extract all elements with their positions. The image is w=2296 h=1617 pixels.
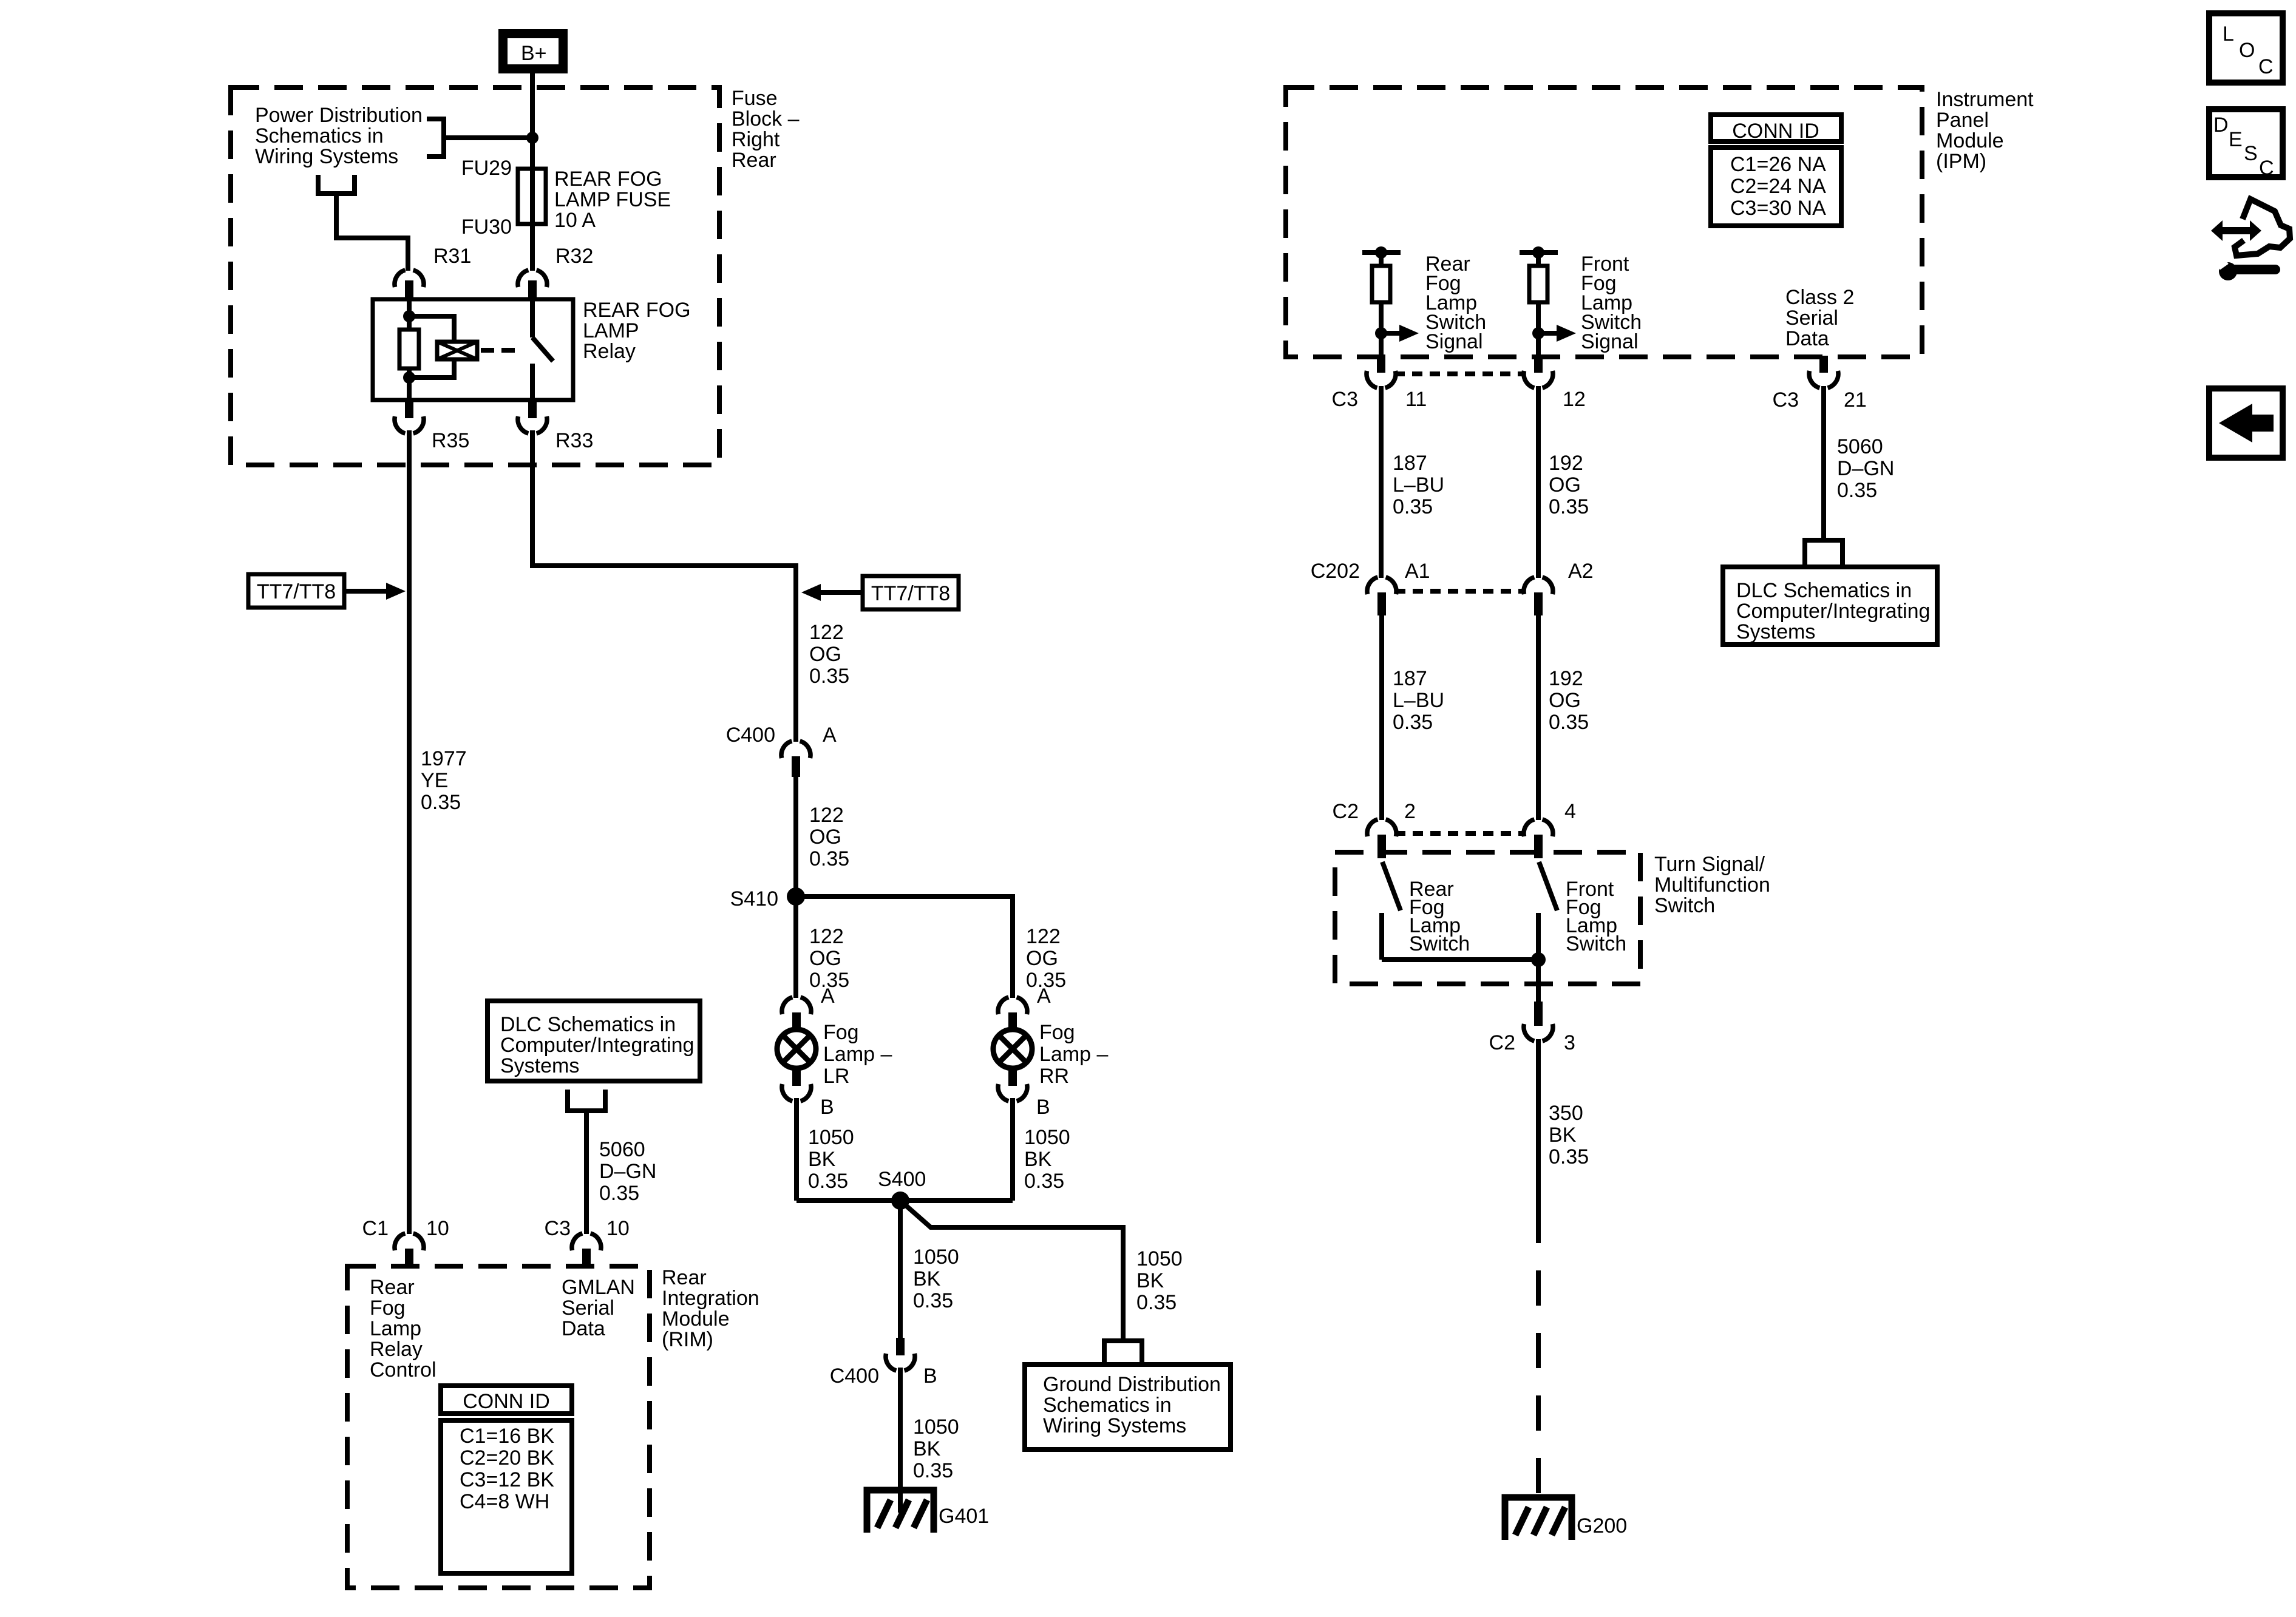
label Rear Integration Module RIM: [662, 1266, 759, 1351]
svg-text:11: 11: [1405, 388, 1427, 411]
svg-text:CONN ID: CONN ID: [1732, 120, 1819, 143]
relay coil loop wires: [409, 316, 454, 378]
svg-text:Computer/Integrating: Computer/Integrating: [500, 1034, 694, 1057]
svg-text:Switch: Switch: [1566, 932, 1626, 955]
front fog lamp switch blade: [1539, 862, 1557, 910]
svg-text:Control: Control: [370, 1358, 436, 1381]
svg-text:0.35: 0.35: [599, 1182, 639, 1205]
wire C2-3 down (350 BK): [1536, 1039, 1541, 1208]
splice S400: [891, 1192, 909, 1210]
label C1 at RIM: [362, 1217, 389, 1240]
svg-text:BK: BK: [1549, 1124, 1577, 1147]
svg-text:B: B: [1036, 1096, 1050, 1119]
label REAR FOG LAMP FUSE 10 A: [554, 168, 671, 232]
wire bracket to R31: [336, 194, 408, 271]
svg-text:A1: A1: [1405, 560, 1430, 583]
svg-text:YE: YE: [421, 769, 448, 792]
dashed connector line C3: [1394, 371, 1525, 376]
svg-text:C3: C3: [1332, 388, 1358, 411]
wire RR-B to S400: [1010, 1098, 1015, 1201]
svg-text:BK: BK: [1024, 1148, 1052, 1171]
svg-text:192: 192: [1549, 667, 1583, 690]
svg-text:REAR FOG: REAR FOG: [554, 168, 662, 191]
connector R31: [395, 270, 424, 299]
label B at LR lamp: [820, 1096, 834, 1119]
svg-text:TT7/TT8: TT7/TT8: [871, 582, 950, 605]
icon connector wrench: [2211, 199, 2290, 280]
label 10 at C1: [426, 1217, 449, 1240]
icon LOC: [2209, 13, 2283, 83]
label C3 at 21: [1773, 388, 1799, 412]
label Instrument Panel Module IPM: [1936, 88, 2034, 173]
svg-text:1050: 1050: [913, 1415, 959, 1439]
label R32: [555, 245, 593, 268]
label 1050 BK 0.35 RR: [1024, 1126, 1070, 1193]
svg-text:Serial: Serial: [1785, 307, 1838, 330]
svg-text:122: 122: [809, 804, 844, 827]
svg-text:(RIM): (RIM): [662, 1328, 713, 1351]
connector C202-A2: [1524, 577, 1553, 615]
IPM dashed box: [1286, 87, 1922, 357]
svg-text:Power Distribution: Power Distribution: [255, 104, 423, 127]
relay switch common wire: [530, 299, 535, 337]
svg-text:Multifunction: Multifunction: [1654, 873, 1770, 897]
svg-text:C1: C1: [362, 1217, 389, 1240]
svg-text:C2: C2: [1489, 1031, 1515, 1054]
svg-text:E: E: [2229, 128, 2243, 151]
junction node on B+ feed: [526, 132, 538, 144]
label S400: [878, 1168, 926, 1191]
svg-text:350: 350: [1549, 1102, 1583, 1125]
fog lamp RR: [993, 1029, 1032, 1068]
off-page bracket Power Distribution: [427, 119, 444, 157]
ground G200: [1505, 1497, 1572, 1540]
svg-text:A: A: [821, 985, 835, 1008]
svg-text:Wiring Systems: Wiring Systems: [255, 145, 398, 168]
svg-text:Class 2: Class 2: [1785, 286, 1854, 309]
label 1977 YE 0.35: [421, 747, 467, 814]
svg-text:BK: BK: [913, 1437, 941, 1460]
connector C2-4: [1524, 819, 1553, 858]
relay switch blade: [532, 337, 553, 361]
label 1050 BK 0.35 LR: [808, 1126, 854, 1193]
box Ground Distribution Schematics: [1025, 1364, 1231, 1449]
svg-text:C1=26 NA: C1=26 NA: [1730, 153, 1826, 176]
svg-text:Switch: Switch: [1409, 932, 1470, 955]
svg-text:TT7/TT8: TT7/TT8: [257, 580, 336, 603]
connector C400-B: [886, 1338, 915, 1371]
label 5060 D-GN 0.35 left: [599, 1138, 656, 1205]
box DLC Schematics right: [1723, 567, 1937, 645]
icon back arrow: [2209, 388, 2283, 458]
svg-text:G200: G200: [1577, 1514, 1627, 1537]
svg-text:0.35: 0.35: [913, 1289, 953, 1312]
svg-text:3: 3: [1564, 1031, 1575, 1054]
svg-text:B: B: [923, 1364, 937, 1388]
relay resistor: [399, 330, 419, 368]
svg-text:L: L: [2223, 22, 2234, 46]
switch output wire: [1382, 960, 1538, 1002]
svg-text:OG: OG: [809, 825, 841, 849]
box DLC Schematics left: [487, 1001, 700, 1081]
dashed wire to G200: [1536, 1208, 1541, 1519]
svg-text:Turn Signal/: Turn Signal/: [1654, 853, 1765, 876]
svg-text:OG: OG: [1026, 947, 1058, 970]
svg-text:Lamp: Lamp: [370, 1317, 421, 1340]
splice S410: [787, 887, 805, 906]
off-page bracket DLC right: [1805, 540, 1843, 567]
label A1: [1405, 560, 1430, 583]
svg-text:1977: 1977: [421, 747, 467, 770]
label C400 at A: [726, 724, 775, 747]
svg-text:Fog: Fog: [1039, 1021, 1075, 1044]
svg-text:Data: Data: [562, 1317, 605, 1340]
svg-text:Module: Module: [1936, 129, 2004, 152]
label 11: [1405, 388, 1427, 411]
wire C400-A to S410: [793, 777, 798, 897]
front fog switch signal circuit: [1520, 246, 1576, 356]
relay coil element: [437, 342, 477, 359]
svg-text:Systems: Systems: [500, 1054, 579, 1077]
svg-text:OG: OG: [809, 947, 841, 970]
connector R32: [518, 270, 547, 299]
label Rear Fog Lamp Relay Control: [370, 1276, 436, 1381]
label C202: [1311, 560, 1360, 583]
svg-text:C400: C400: [830, 1364, 879, 1388]
svg-text:R31: R31: [433, 245, 471, 268]
svg-text:C202: C202: [1311, 560, 1360, 583]
svg-text:122: 122: [1026, 925, 1061, 948]
svg-text:10: 10: [606, 1217, 630, 1240]
wire C400-B to G401: [898, 1368, 903, 1513]
wire S400 to C400-B: [898, 1201, 903, 1338]
svg-text:C2=24 NA: C2=24 NA: [1730, 175, 1826, 198]
svg-text:C2: C2: [1333, 800, 1359, 823]
label GMLAN Serial Data: [562, 1276, 635, 1340]
svg-text:CONN ID: CONN ID: [463, 1390, 550, 1413]
svg-text:FU30: FU30: [461, 215, 512, 239]
relay coil wire left: [407, 299, 412, 400]
connector C400-A: [781, 741, 810, 777]
svg-text:L–BU: L–BU: [1393, 689, 1444, 712]
svg-text:Signal: Signal: [1581, 330, 1639, 353]
svg-text:Rear: Rear: [732, 149, 776, 172]
svg-text:S410: S410: [730, 887, 778, 910]
svg-text:BK: BK: [808, 1148, 836, 1171]
label Rear Fog Lamp Switch: [1409, 878, 1470, 955]
off-page bracket ground distribution: [1104, 1341, 1142, 1362]
label 122 OG 0.35 below C400: [809, 804, 849, 870]
svg-text:0.35: 0.35: [808, 1170, 848, 1193]
svg-text:0.35: 0.35: [1393, 711, 1433, 734]
svg-text:B: B: [820, 1096, 834, 1119]
connector R35: [395, 400, 424, 433]
fog lamp LR: [777, 1029, 816, 1068]
dashed connector line C2: [1395, 831, 1525, 836]
label FU30: [461, 215, 512, 239]
icon DESC: [2209, 109, 2283, 180]
off-page bracket DLC left: [568, 1090, 605, 1111]
label B at RR lamp: [1036, 1096, 1050, 1119]
svg-text:0.35: 0.35: [1136, 1291, 1177, 1314]
label 187 L-BU 0.35 upper: [1393, 452, 1444, 518]
svg-text:4: 4: [1564, 800, 1576, 823]
svg-text:LAMP FUSE: LAMP FUSE: [554, 188, 671, 211]
label 187 L-BU 0.35 lower: [1393, 667, 1444, 734]
svg-text:0.35: 0.35: [1549, 711, 1589, 734]
svg-text:21: 21: [1844, 388, 1867, 412]
svg-text:Lamp –: Lamp –: [1039, 1043, 1108, 1066]
svg-text:C4=8 WH: C4=8 WH: [460, 1490, 549, 1513]
wire ground bus LR-RR: [796, 1198, 1013, 1203]
label FU29: [461, 157, 512, 180]
svg-text:R33: R33: [555, 429, 593, 452]
svg-text:GMLAN: GMLAN: [562, 1276, 635, 1299]
svg-text:187: 187: [1393, 452, 1427, 475]
label 1050 BK 0.35 above G401: [913, 1415, 959, 1482]
label A2: [1568, 560, 1594, 583]
svg-text:0.35: 0.35: [913, 1459, 953, 1482]
label R35: [432, 429, 469, 452]
svg-text:Integration: Integration: [662, 1287, 759, 1310]
svg-text:(IPM): (IPM): [1936, 150, 1986, 173]
svg-text:C3=12 BK: C3=12 BK: [460, 1468, 554, 1491]
wire C3-11 to C202-A1 (187 L-BU): [1379, 386, 1384, 578]
svg-text:0.35: 0.35: [809, 665, 849, 688]
svg-text:C: C: [2258, 55, 2274, 78]
wire R35 to C1-10 (1977 YE): [407, 430, 412, 1234]
label R31: [433, 245, 471, 268]
connector C2-3: [1524, 1002, 1553, 1041]
ground G401: [867, 1490, 934, 1533]
rear fog switch signal circuit: [1362, 246, 1419, 356]
svg-text:L–BU: L–BU: [1393, 473, 1444, 497]
label A at C400: [823, 724, 837, 747]
label C3 at RIM: [545, 1217, 571, 1240]
svg-text:A2: A2: [1568, 560, 1594, 583]
label A at LR lamp: [821, 985, 835, 1008]
label 2: [1404, 800, 1416, 823]
wire fuse to R32: [530, 224, 535, 271]
svg-text:S: S: [2244, 142, 2258, 165]
svg-text:A: A: [823, 724, 837, 747]
svg-text:Data: Data: [1785, 327, 1829, 350]
turn signal multifunction switch dashed box: [1335, 852, 1640, 984]
arrow TT7/TT8 left to wire: [344, 583, 406, 600]
label Front Fog Lamp Switch Signal: [1581, 253, 1642, 353]
svg-text:Serial: Serial: [562, 1297, 614, 1320]
label Rear Fog Lamp Switch Signal: [1425, 253, 1486, 353]
label C400 at B: [830, 1364, 879, 1388]
label 192 OG 0.35 lower: [1549, 667, 1589, 734]
svg-text:Rear: Rear: [662, 1266, 707, 1289]
svg-text:Fuse: Fuse: [732, 87, 778, 110]
connector R33: [518, 400, 547, 433]
RIM CONN ID table: [441, 1386, 572, 1573]
svg-text:0.35: 0.35: [1549, 495, 1589, 518]
label Front Fog Lamp Switch: [1566, 878, 1626, 955]
svg-text:D: D: [2213, 114, 2229, 137]
svg-text:DLC Schematics in: DLC Schematics in: [1736, 579, 1912, 602]
label Fog Lamp - LR: [823, 1021, 892, 1088]
svg-text:REAR FOG: REAR FOG: [583, 299, 691, 322]
svg-text:1050: 1050: [913, 1246, 959, 1269]
label Fuse Block - Right Rear: [732, 87, 800, 172]
svg-text:B+: B+: [521, 42, 547, 65]
svg-text:C1=16 BK: C1=16 BK: [460, 1425, 554, 1448]
svg-text:0.35: 0.35: [1837, 479, 1877, 502]
RIM dashed box: [347, 1266, 650, 1588]
rear fog lamp switch contact: [1379, 913, 1384, 960]
wire C3-21 to DLC (5060 D-GN): [1821, 386, 1826, 540]
svg-text:10 A: 10 A: [554, 209, 596, 232]
junction dot switch outputs: [1531, 952, 1546, 967]
label REAR FOG LAMP Relay: [583, 299, 691, 363]
svg-text:C400: C400: [726, 724, 775, 747]
relay actuator dashed link: [481, 348, 521, 353]
label 1050 BK 0.35 right branch: [1136, 1247, 1183, 1314]
svg-text:BK: BK: [1136, 1269, 1164, 1292]
svg-text:Relay: Relay: [583, 340, 636, 363]
connector C202-A1: [1367, 577, 1396, 615]
svg-text:1050: 1050: [1024, 1126, 1070, 1149]
svg-text:D–GN: D–GN: [599, 1160, 656, 1183]
label Fog Lamp - RR: [1039, 1021, 1108, 1088]
svg-text:Rear: Rear: [370, 1276, 415, 1299]
svg-text:Signal: Signal: [1425, 330, 1483, 353]
svg-text:0.35: 0.35: [809, 847, 849, 870]
svg-text:Ground Distribution: Ground Distribution: [1043, 1373, 1221, 1396]
svg-text:1050: 1050: [1136, 1247, 1183, 1270]
off-page box TT7/TT8 right: [863, 576, 959, 609]
wire R33 to C400-A (122 OG): [532, 430, 796, 742]
junction dot coil top: [403, 310, 415, 322]
svg-text:O: O: [2239, 39, 2255, 62]
label C2: [1333, 800, 1359, 823]
label 350 BK 0.35: [1549, 1102, 1589, 1168]
svg-text:R32: R32: [555, 245, 593, 268]
svg-text:Schematics in: Schematics in: [255, 124, 384, 147]
IPM CONN ID table: [1711, 115, 1841, 226]
svg-text:0.35: 0.35: [1024, 1170, 1064, 1193]
svg-text:0.35: 0.35: [421, 791, 461, 814]
label Class 2 Serial Data: [1785, 286, 1854, 350]
svg-text:C3=30 NA: C3=30 NA: [1730, 197, 1826, 220]
wire LR-B to S400: [794, 1098, 799, 1201]
wire B+ to fuse FU29: [530, 73, 535, 271]
label B at C400: [923, 1364, 937, 1388]
svg-text:10: 10: [426, 1217, 449, 1240]
svg-text:C3: C3: [545, 1217, 571, 1240]
label 21: [1844, 388, 1867, 412]
svg-text:122: 122: [809, 925, 844, 948]
label S410: [730, 887, 778, 910]
label C3 at 11: [1332, 388, 1358, 411]
connector A fog lamp RR: [998, 997, 1027, 1030]
arrow TT7/TT8 right to wire: [801, 584, 863, 601]
rear fog lamp switch blade: [1382, 862, 1401, 910]
label 122 OG 0.35 above C400: [809, 621, 849, 688]
label Power Distribution Schematics in Wiring Systems: [255, 104, 423, 168]
svg-text:Schematics in: Schematics in: [1043, 1394, 1172, 1417]
svg-text:C3: C3: [1773, 388, 1799, 412]
wire DLC to C3-10 (5060 D-GN): [584, 1111, 589, 1234]
svg-text:C: C: [2259, 157, 2274, 180]
svg-text:LAMP: LAMP: [583, 319, 639, 342]
relay switch output wire: [530, 364, 535, 400]
svg-text:Instrument: Instrument: [1936, 88, 2034, 111]
label 122 OG 0.35 RR: [1026, 925, 1066, 992]
label 10 at C3: [606, 1217, 630, 1240]
svg-text:Wiring Systems: Wiring Systems: [1043, 1414, 1186, 1437]
svg-text:DLC Schematics in: DLC Schematics in: [500, 1013, 676, 1036]
svg-text:Computer/Integrating: Computer/Integrating: [1736, 600, 1930, 623]
label 3: [1564, 1031, 1575, 1054]
svg-text:1050: 1050: [808, 1126, 854, 1149]
svg-text:FU29: FU29: [461, 157, 512, 180]
label C2 at 3: [1489, 1031, 1515, 1054]
fuse FU29/FU30: [518, 169, 546, 224]
svg-text:Right: Right: [732, 128, 780, 151]
label 5060 D-GN 0.35 right: [1837, 435, 1894, 502]
svg-text:Lamp –: Lamp –: [823, 1043, 892, 1066]
connector C3-11: [1367, 356, 1396, 388]
svg-text:OG: OG: [809, 643, 841, 666]
svg-text:BK: BK: [913, 1267, 941, 1290]
label 1050 BK 0.35 below S400: [913, 1246, 959, 1312]
label R33: [555, 429, 593, 452]
junction dot coil bottom: [403, 371, 415, 384]
svg-text:OG: OG: [1549, 689, 1581, 712]
B+ battery positive terminal: [503, 34, 563, 69]
label G200: [1577, 1514, 1627, 1537]
svg-text:RR: RR: [1039, 1065, 1069, 1088]
svg-text:S400: S400: [878, 1168, 926, 1191]
svg-text:C2=20 BK: C2=20 BK: [460, 1446, 554, 1470]
connector C3-10: [572, 1233, 601, 1267]
dashed connector line C202: [1395, 589, 1525, 594]
wire C202-A1 to C2-2: [1379, 615, 1384, 820]
label 12: [1563, 388, 1586, 411]
connector B fog lamp LR: [782, 1068, 811, 1101]
svg-text:R35: R35: [432, 429, 469, 452]
connector B fog lamp RR: [998, 1068, 1027, 1101]
off-page bracket under Power Distribution: [318, 175, 355, 194]
connector A fog lamp LR: [782, 997, 811, 1030]
wire C202-A2 to C2-4: [1536, 615, 1541, 820]
svg-text:Switch: Switch: [1654, 894, 1715, 917]
svg-text:Fog: Fog: [823, 1021, 859, 1044]
connector C3-12: [1524, 356, 1553, 388]
fuse block dashed box: [231, 87, 719, 465]
svg-text:192: 192: [1549, 452, 1583, 475]
wire C3-12 to C202-A2 (192 OG): [1536, 386, 1541, 578]
svg-text:Relay: Relay: [370, 1338, 423, 1361]
svg-text:0.35: 0.35: [1549, 1145, 1589, 1168]
svg-text:122: 122: [809, 621, 844, 644]
svg-text:A: A: [1037, 985, 1051, 1008]
svg-text:5060: 5060: [1837, 435, 1883, 458]
wire S400 to ground distribution ref: [900, 1201, 1123, 1341]
svg-text:0.35: 0.35: [1393, 495, 1433, 518]
svg-text:5060: 5060: [599, 1138, 645, 1161]
svg-text:12: 12: [1563, 388, 1586, 411]
label 192 OG 0.35 upper: [1549, 452, 1589, 518]
front fog lamp switch contact: [1536, 913, 1541, 960]
relay box: [373, 299, 573, 400]
svg-text:D–GN: D–GN: [1837, 457, 1894, 480]
wire power distribution tap: [444, 135, 532, 140]
